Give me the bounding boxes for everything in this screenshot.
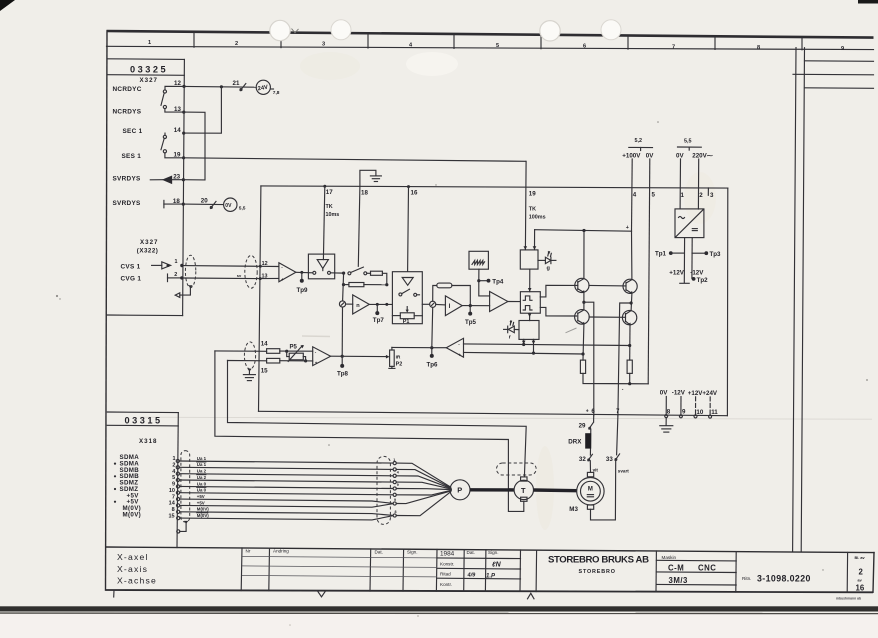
svg-text:5: 5 [652,192,656,199]
wire P5 amp out [331,355,386,357]
op-amp U1 input [260,263,296,282]
testpoint Tp9 [297,272,309,294]
svg-text:Maskin: Maskin [662,555,677,560]
svg-text:Ritn.: Ritn. [742,576,751,581]
feedback line lower [464,352,584,354]
wire node to summing circle [343,273,344,301]
pin 2 top [699,192,703,199]
op-amp P5 [313,347,331,366]
X318 wires rows 1-6 [180,461,394,495]
svg-text:19: 19 [529,191,536,198]
wire Q2 to Q4 base [589,316,625,318]
op-amp I [436,296,462,316]
signal NCRDYS [113,108,142,115]
pin label 12 inside [262,261,268,267]
wire pin6 to DRX [590,416,593,455]
svg-text:STOREBRO BRUKS AB: STOREBRO BRUKS AB [548,555,649,566]
svg-text:03315: 03315 [125,415,163,425]
meter 0V [224,198,237,211]
frame column numbers 1-9 [148,40,844,52]
svg-text:+5V: +5V [197,494,205,499]
pin 12 [174,80,186,88]
svg-text:11: 11 [711,409,718,416]
svg-text:CVG 1: CVG 1 [121,276,142,283]
wire node13 to node23 loop [183,112,205,180]
svg-text:21: 21 [233,80,240,87]
pin 19 [174,152,186,160]
ground at pin 8 [660,418,673,432]
potentiometer P5 [287,345,306,362]
svg-text:2: 2 [859,568,864,577]
svg-text:220V⁓: 220V⁓ [692,153,713,160]
testpoint Tp1 [655,251,684,258]
svg-text:mbushmann ab: mbushmann ab [836,597,861,601]
label 0V 220V [676,153,713,160]
testpoint Tp3 [692,251,721,258]
disconnect point 29 [589,422,594,429]
wire 220V [697,159,699,209]
op-amp n [346,295,370,314]
revision table rows [242,556,521,579]
terminal CVG1 [168,274,181,282]
wire Q1 emitter node [582,292,585,310]
svg-text:4: 4 [397,471,399,475]
frame bottom border [106,590,874,592]
svg-text:SES 1: SES 1 [122,153,142,160]
wire CVG to box pin13 [184,277,262,280]
svg-text:14: 14 [174,127,181,134]
svg-text:Ua 1: Ua 1 [197,456,207,461]
svg-text:IR: IR [396,354,401,360]
summing node S2 [430,301,436,307]
svg-text:Tp7: Tp7 [373,317,385,324]
svg-text:Tp8: Tp8 [337,371,349,378]
svg-text:M(0V): M(0V) [197,513,209,518]
svg-text:SVRDYS: SVRDYS [113,176,142,183]
stray pencil mark [566,328,577,333]
timer box TK100ms [520,246,538,269]
pin 11 [709,397,719,418]
svg-text:CVS 1: CVS 1 [121,263,141,270]
pin 17 [323,185,333,196]
revision rows top right [793,61,874,89]
svg-text:NCRDYS: NCRDYS [113,108,142,115]
punch holes [270,20,621,41]
switch S2 bypass [348,267,367,275]
pin 3 top [708,188,714,199]
sheet ref 5,2 [629,138,653,151]
label +100V 0V [622,152,654,159]
label 32 [579,456,586,463]
svg-text:5,5: 5,5 [239,206,246,212]
wire Q4 emitter [628,325,631,360]
resistor R14 [267,349,313,354]
svg-text:4: 4 [633,192,637,199]
svg-text:3M/3: 3M/3 [669,576,688,585]
wire node19 long to pin19 col [184,158,526,162]
wire SEC1 stub [164,133,166,135]
svg-text:9: 9 [394,498,396,502]
svg-text:1: 1 [148,40,151,46]
svg-text:M(0V): M(0V) [197,507,209,512]
label sv [237,273,242,278]
svg-text:+5V: +5V [197,500,205,505]
svg-text:CNC: CNC [698,564,716,573]
signal SES 1 [122,153,142,160]
svg-text:P2: P2 [396,362,403,368]
pin 8 [665,397,671,418]
svg-text:X-axis: X-axis [117,564,148,574]
STOREBRO BRUKS AB [548,555,649,575]
wire TK10ms out to switch node [335,272,346,275]
pin 14 [174,127,185,135]
svg-text:10ms: 10ms [326,212,340,218]
svg-text:Tp6: Tp6 [427,361,439,368]
wire summing to Tp8 node [341,307,343,356]
wire pulse to Q1 base [540,285,578,297]
svg-text:1: 1 [393,458,395,462]
pin 7 [616,408,620,415]
svg-text:P: P [457,486,462,495]
signal NCRDYC [113,86,142,93]
wire +100V [631,159,634,231]
svg-text:2: 2 [172,463,175,469]
svg-text:sv: sv [237,273,242,278]
svg-text:9: 9 [682,409,686,416]
wire n out [369,303,392,306]
shaft T to M [534,488,577,492]
svg-text:Ua 1: Ua 1 [197,462,207,467]
wire CVS to box pin12 [184,265,262,268]
testpoint Tp6 [427,307,439,368]
label 21 [233,80,240,87]
svg-text:X327: X327 [140,239,158,246]
amplifier unit enclosure box [259,186,728,416]
X-axel box text [117,552,157,586]
svg-text:Kontr.: Kontr. [440,582,452,587]
svg-text:17: 17 [326,189,333,196]
wire 32 to motor top [589,461,591,473]
svg-text:+: + [458,352,461,357]
cable shield oval B [245,256,257,289]
svg-text:16: 16 [856,583,865,592]
shield ground C [243,369,255,381]
svg-text:2: 2 [174,272,177,278]
label X327 (X322) [137,239,159,255]
label X318 [139,438,157,445]
svg-text:M3: M3 [569,506,578,513]
collector supply rail [535,225,632,250]
svg-text:svart: svart [618,468,629,473]
svg-text:0V: 0V [225,203,232,209]
svg-text:Dat.: Dat. [375,550,383,555]
wire output pin7 branch [618,303,631,416]
svg-text:M: M [588,486,593,492]
tachometer T [514,477,533,501]
pin 9 [679,397,686,418]
svg-text:STOREBRO: STOREBRO [579,569,616,575]
frame right double verticals [793,48,805,552]
revision table headers [246,548,499,587]
X318 connector pin circles [176,459,180,519]
cable shield capsule bundle [377,456,390,524]
svg-text:P5: P5 [290,345,298,351]
ground at pin18 [360,170,382,186]
potentiometer P1 [392,307,422,326]
connector block 03315 [107,412,178,548]
pin 1 [175,259,184,267]
transistor Q2 [575,310,590,325]
wire output pin6 branch [584,302,594,416]
emitter resistor RE2 [627,360,632,373]
wire pin12 to lamp [184,85,256,88]
label vit [593,468,599,473]
svg-text:9: 9 [397,483,399,487]
wire comparator to pulse box [508,301,521,303]
handwritten signatures [467,562,502,580]
svg-text:1: 1 [175,259,178,265]
title block right edge [873,553,874,593]
wire pulse box to relay r [528,313,532,320]
ramp generator box [469,251,488,269]
shaft P to T [470,488,514,492]
title block top line [106,547,874,553]
terminal SVRDYS 18 [164,200,183,207]
wire switch to pin19 [165,153,184,158]
label X327 [140,77,158,84]
svg-text:Ua 2: Ua 2 [197,475,207,480]
svg-text:Tp4: Tp4 [492,278,504,285]
svg-text:1984: 1984 [440,550,455,557]
svg-text:-12V: -12V [690,270,704,277]
svg-text:Ua 0: Ua 0 [197,488,207,493]
svg-text:10: 10 [696,409,703,416]
svg-text:Ua 2: Ua 2 [197,469,207,474]
revision table left edge [240,548,243,591]
svg-text:Tp1: Tp1 [655,251,667,258]
svg-text:2: 2 [699,192,703,199]
wire switch to pin13 [165,109,184,112]
wire pin7 down to 33 [617,416,618,455]
LED r [504,321,519,341]
ramp unit box P1 [392,272,422,324]
svg-text:n: n [356,303,360,309]
svg-text:M(0V): M(0V) [123,511,142,518]
svg-text:5: 5 [496,43,499,49]
summing node S1 [339,301,345,307]
Bl av box [855,556,866,593]
pin 1 top [681,192,685,199]
svg-text:6: 6 [583,44,586,50]
pin label 13 inside [262,274,268,280]
input flag CVS1 [152,262,171,269]
transistor Q1 [575,278,589,293]
signal SVRDYS out [113,176,142,183]
svg-text:8: 8 [395,510,397,514]
svg-text:3-1098.0220: 3-1098.0220 [757,574,811,584]
signal CVS 1 [121,263,141,270]
svg-text:TK: TK [326,204,333,210]
pin 6 [586,408,596,415]
svg-text:Tp2: Tp2 [697,277,709,284]
pin 10 [694,397,704,418]
relay box r [519,321,539,340]
signal SVRDYS in [113,200,142,207]
potentiometer IR P2 [386,347,402,368]
bundle pin circles [393,462,396,518]
wire pulse to Q2 base [540,307,576,316]
lamp 24V [256,80,273,94]
transistor Q3 [623,279,637,294]
svg-text:1: 1 [172,456,175,462]
scan corner mark top-left [0,0,15,11]
svg-text:Tp5: Tp5 [465,319,477,326]
pin 23 [173,173,185,181]
wire -12V out [691,238,693,279]
LED g [538,251,556,271]
X318 inverted-signal bullets [114,463,116,503]
svg-text:Ritad: Ritad [440,572,451,577]
svg-text:Ändring: Ändring [273,548,289,554]
pin 14 wire [215,341,268,352]
feedback line upper [464,344,630,346]
relay r output stubs [522,339,535,354]
wire pin15 to tacho top [228,361,527,477]
power supply unit U2 [675,209,704,238]
transistor Q4 [622,310,636,325]
resistor R2 switched [367,271,387,285]
wire Q2 emitter [581,324,584,360]
frame column ruler line [107,46,874,49]
svg-text:Ua 0: Ua 0 [197,481,207,486]
output flag SVRDYS [150,176,183,184]
svg-text:-12V: -12V [672,390,686,397]
shield drain arrow [175,285,192,297]
wire junction to SEC1 row [184,87,222,133]
svg-text:3: 3 [322,42,325,48]
svg-text:C-M: C-M [668,564,684,573]
svg-text:+: + [281,277,284,282]
label M3 [569,506,578,513]
svg-text:9: 9 [841,46,844,52]
wire Q1 base to Q3 base [589,284,626,287]
sheet ref 5,5 [678,138,702,150]
svg-text:+12V: +12V [669,269,684,276]
svg-text:Dat.: Dat. [467,550,475,555]
svg-text:(X322): (X322) [137,247,159,254]
svg-text:ℓN: ℓN [491,562,502,569]
testpoint Tp8 [337,355,349,378]
svg-text:20: 20 [201,198,208,205]
switch SEC1/SES1 [161,135,166,153]
svg-text:8: 8 [172,507,175,513]
svg-text:03325: 03325 [130,64,168,74]
wire I out [462,304,489,307]
svg-text:+: + [626,225,629,231]
label 20 [201,198,208,205]
cable shield oval A [185,255,195,287]
svg-text:DRX: DRX [568,438,582,445]
svg-text:Bl. av: Bl. av [855,556,866,560]
svg-text:10: 10 [169,488,175,494]
testpoint Tp4 [487,278,504,285]
disconnect point 32 [588,454,593,461]
disconnect point 21 [240,84,246,91]
comparator triangle [490,292,508,312]
X318 wire labels Ug [197,456,209,518]
svg-text:X327: X327 [140,77,158,84]
svg-text:100ms: 100ms [529,215,546,221]
svg-text:X318: X318 [139,438,157,445]
svg-text:2: 2 [235,41,238,47]
wire pin14 to tacho bottom [215,351,524,512]
scan mark top-right edge [858,0,878,4]
signal CVG 1 [121,276,142,283]
fold mark top [292,29,299,33]
svg-text:Konstr.: Konstr. [440,562,454,567]
polarity mark minus [622,386,624,392]
cable shield oval C [244,342,255,369]
feedback op-amp left [446,338,463,357]
wire +12V out [683,238,685,283]
cable shield capsule X318 [181,451,190,522]
svg-text:7: 7 [616,408,620,415]
frame left border [106,31,108,590]
svg-text:8: 8 [667,409,671,416]
X318 pin numbers [168,456,176,519]
svg-text:14: 14 [261,341,268,348]
wire pin12 to switch [165,86,184,90]
svg-text:29: 29 [579,423,586,430]
testpoint Tp7 [373,304,385,324]
terminal bar under +12V [680,282,689,284]
label 7,8 [273,90,280,96]
svg-text:P1: P1 [403,319,410,325]
bundle tiny pin numbers [393,458,399,514]
resistor R15 [267,358,313,363]
wire Q1 collector [583,231,585,279]
motor M3 [577,472,604,509]
frame column ticks [194,33,802,50]
label 0V -12V +12V+24V [660,389,718,396]
wire pin18 to 0V meter [183,203,223,206]
svg-text:+: + [315,360,318,365]
label -12V [690,270,704,277]
0V return wire [583,373,648,385]
svg-text:16: 16 [411,190,418,197]
pin 4 [633,192,637,199]
testpoint Tp5 [465,306,477,327]
pulse shaper box [520,292,540,314]
bundle fan to P [396,463,451,516]
inverted signal overlines [197,462,208,513]
label 29 [579,423,586,430]
revision table columns [269,548,848,592]
testpoint Tp2 [692,277,708,284]
timer box TK10ms with limiter [308,254,334,279]
svg-text:X-axel: X-axel [117,552,149,562]
wire 16 down [407,187,410,272]
svg-text:15: 15 [168,513,174,519]
svg-text:18: 18 [361,189,368,196]
svg-text:5,5: 5,5 [684,138,692,144]
svg-text:1: 1 [681,192,685,199]
pin 2 [174,272,183,280]
svg-text:14: 14 [169,501,176,507]
feedback capsule resistor R3 [433,283,471,305]
X318 signal labels [120,454,142,518]
svg-text:7: 7 [672,44,675,50]
